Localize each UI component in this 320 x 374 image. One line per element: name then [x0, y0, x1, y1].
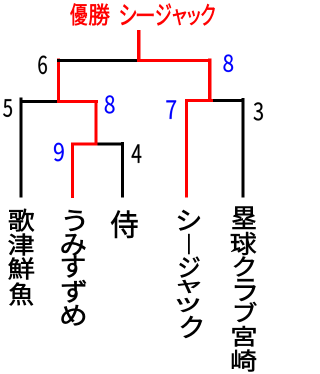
wire: final horizontal red (right half): [137, 59, 212, 62]
title char シ (red): [120, 5, 136, 26]
title char ャ (red): [173, 9, 186, 25]
team name Ruikyu-Club-Miyazaki char 塁: [233, 207, 256, 230]
title char ッ (red): [188, 11, 200, 25]
score 8 (right finalist, winner): [224, 55, 234, 73]
team name Umisuzume char ず: [62, 280, 86, 303]
score 7 (Sea Jack, semi winner): [166, 100, 176, 119]
wire: team line Utatsu Sengyo (black): [20, 98, 23, 198]
score 4 (Samurai): [132, 144, 142, 163]
title char 優 (red): [70, 3, 87, 25]
wire: right-semi horizontal red part: [185, 99, 213, 102]
score 8 (round1 winner, semi): [105, 95, 115, 113]
team name Ruikyu-Club-Miyazaki char ブ: [235, 302, 257, 322]
wire: team line Sea Jack (red): [185, 99, 188, 198]
team name Umisuzume char う: [65, 210, 84, 231]
team name Utatsu-Sengyo char 鮮: [9, 258, 35, 280]
team name Ruikyu-Club-Miyazaki char 球: [231, 232, 256, 255]
team name Ruikyu-Club-Miyazaki char ク: [234, 257, 254, 277]
team name Utatsu-Sengyo char 歌: [9, 209, 34, 232]
score 5 (Utatsu Sengyo): [3, 99, 12, 117]
wire: team line Samurai (black): [121, 142, 124, 198]
score 6 (left finalist): [38, 56, 47, 75]
team name Sea-Jack char ー (vertical bar form): [188, 234, 190, 255]
team name Utatsu-Sengyo char 魚: [10, 283, 34, 306]
wire: left finalist vertical (red): [57, 58, 60, 103]
title char ジ (red): [157, 4, 172, 26]
team name Utatsu-Sengyo char 津: [9, 234, 34, 256]
team name Samurai char 侍: [111, 211, 138, 239]
team name Umisuzume char め: [62, 305, 86, 326]
title char 勝 (red): [89, 4, 110, 26]
wire: left-semi horizontal black part: [20, 100, 58, 103]
team name Sea-Jack char シ: [178, 210, 200, 231]
wire: team line Ruikyu Club Miyazaki (black): [242, 98, 245, 198]
title char ク (red): [202, 4, 215, 25]
team name Sea-Jack char ジ: [180, 257, 200, 278]
wire: final horizontal black (left half): [57, 59, 137, 62]
team name Umisuzume char す: [62, 256, 85, 278]
wire: round1 horizontal red part: [71, 143, 98, 146]
wire: champion line (red, up from final): [137, 30, 141, 62]
title char ー (red): [137, 14, 154, 16]
team name Ruikyu-Club-Miyazaki char 宮: [233, 326, 256, 347]
team name Umisuzume char み: [62, 234, 86, 256]
score 3 (Miyazaki): [254, 102, 263, 120]
team name Ruikyu-Club-Miyazaki char 崎: [232, 350, 256, 372]
score 9 (Umisuzume, round1 winner): [54, 143, 64, 162]
team name Sea-Jack char ャ: [178, 280, 200, 293]
wire: round1 horizontal black part: [98, 143, 124, 146]
wire: left-semi horizontal red part: [57, 100, 98, 103]
wire: right finalist vertical (red): [208, 58, 211, 102]
wire: right-semi horizontal black part: [213, 99, 245, 102]
team name Sea-Jack char ッ: [177, 298, 199, 312]
team name Ruikyu-Club-Miyazaki char ラ: [235, 279, 256, 301]
wire: team line Umisuzume (red): [71, 143, 74, 199]
wire: round1 winner line up to left-semi (red): [95, 100, 98, 146]
team name Sea-Jack char ク: [181, 316, 202, 338]
